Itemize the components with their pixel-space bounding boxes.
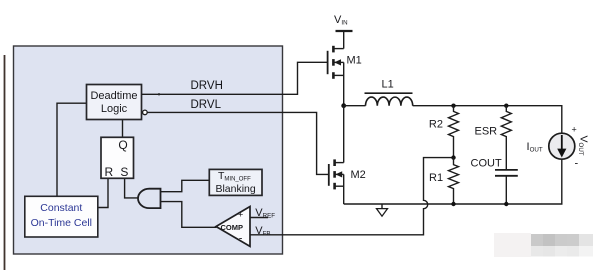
svg-text:R1: R1 [429,172,443,184]
node R2/R1 junction [451,155,455,159]
svg-text:DRVH: DRVH [191,80,223,92]
Iout label [527,141,543,154]
wire: comparator output to AND gate bottom input [161,202,217,228]
transistor M1 [328,46,344,106]
current source Iout [549,133,575,159]
Vref input stub [250,217,268,219]
ground [377,204,388,216]
AND gate (facing left) [138,189,161,208]
svg-text:Deadtime: Deadtime [90,90,137,102]
DRVH wire [142,62,328,95]
controller box [14,46,283,254]
svg-text:+: + [238,209,243,219]
wire: latch S to AND gate output [125,178,139,198]
Vout label (rotated) [572,125,590,170]
svg-text:Blanking: Blanking [215,183,255,195]
L1 label [382,79,394,91]
M2 label [351,169,366,181]
svg-text:DRVL: DRVL [191,99,222,111]
Tmin_off Blanking block [209,169,262,195]
Vin supply bar [336,31,353,49]
bottom rail [344,159,562,206]
Vin label [334,14,348,27]
wire: Deadtime Logic left to Constant On-Time Cell top [57,103,87,196]
svg-text:COUT: COUT [471,158,502,170]
svg-text:R2: R2 [429,119,443,131]
svg-text:COMP: COMP [221,223,244,232]
Vref label [255,207,275,220]
output top rail [413,104,562,134]
svg-text:Constant: Constant [40,202,82,214]
DRVL label [191,99,222,111]
comparator COMP [216,207,250,247]
capacitor COUT [495,170,518,204]
M1 label [347,55,362,67]
COUT label [471,158,502,170]
svg-text:M2: M2 [351,169,366,181]
wire: Deadtime Logic bottom to latch Q [122,119,124,137]
DRVH label [191,80,223,92]
inductor L1 [365,93,413,106]
DRVL wire [147,112,329,174]
svg-text:S: S [120,165,128,179]
ESR label [475,126,498,138]
switch node junction [341,103,365,162]
resistor R1 [449,158,459,204]
Vfb feedback wire with hop over ground rail [250,158,454,235]
SR latch [101,137,134,179]
Vfb label [255,225,270,238]
resistor ESR [501,106,511,170]
svg-text:M1: M1 [347,55,362,67]
watermark mosaic [494,233,593,257]
wire: Blanking box to AND gate top input [161,180,210,191]
svg-text:Logic: Logic [101,103,128,115]
svg-text:ESR: ESR [475,126,498,138]
left page border line [4,55,6,270]
svg-text:-: - [239,233,243,245]
DRVL inverter bubble [143,110,148,115]
resistor R2 [449,106,459,158]
Deadtime Logic block [87,85,142,120]
svg-text:-: - [575,158,579,170]
svg-text:Q: Q [118,138,127,152]
svg-text:+: + [572,125,577,135]
R2 label [429,119,443,131]
wire: latch R to COT cell output [98,178,108,207]
svg-text:R: R [104,165,113,179]
svg-text:On-Time Cell: On-Time Cell [31,217,92,229]
Constant On-Time Cell block [25,196,98,237]
transistor M2 [329,159,344,204]
R1 label [429,172,443,184]
svg-text:L1: L1 [382,79,394,91]
